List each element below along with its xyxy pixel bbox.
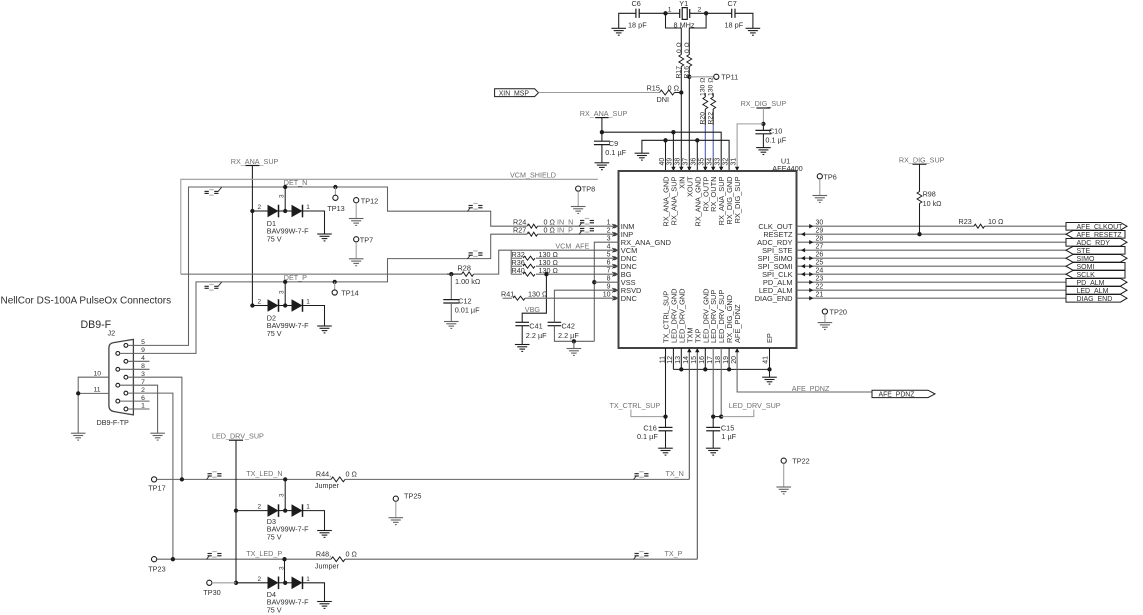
svg-text:TP7: TP7 [360,235,373,244]
svg-text:9: 9 [141,347,145,354]
svg-text:2: 2 [257,504,261,511]
svg-text:2: 2 [698,7,702,14]
wire pin 27 to flag STE [797,249,1067,251]
svg-text:0.1 µF: 0.1 µF [637,432,658,441]
svg-text:SIMO: SIMO [1077,256,1095,263]
svg-text:7: 7 [141,379,145,386]
svg-text:TX_N: TX_N [666,469,684,478]
svg-text:7: 7 [607,267,611,274]
svg-text:10: 10 [94,370,102,377]
svg-text:4: 4 [141,355,145,362]
shield symbol (DET_P mid) [468,251,483,259]
svg-text:NellCor DS-100A PulseOx Connec: NellCor DS-100A PulseOx Connectors [1,296,172,307]
wire pin 15 TXP to TX_P [696,348,698,559]
wire pin 8 stub [594,281,618,283]
svg-text:6: 6 [141,395,145,402]
svg-text:R98: R98 [923,190,936,199]
wire rail to pin 40 [665,140,667,171]
svg-text:3: 3 [279,194,286,198]
test point TP22 [781,458,786,463]
U1 left pin arrows [614,224,618,228]
resistor R17 0 ohm (XIN) [679,55,684,67]
junction D1 center (pin 3) [283,209,287,213]
wire pin 26 to flag SIMO [797,257,1067,259]
svg-text:RX_DIG_SUP: RX_DIG_SUP [733,176,742,223]
svg-text:24: 24 [816,267,824,274]
junction DET_P / D2 pin 3 [283,280,287,284]
svg-text:8: 8 [607,275,611,282]
svg-text:R28: R28 [458,264,471,273]
shield symbol (TX_LED_N) [207,472,222,480]
svg-text:1: 1 [141,403,145,410]
wire R22 to pin 34 (blue) [712,125,714,158]
svg-text:35: 35 [699,158,706,166]
junction gnd rail pin 19 [727,367,731,371]
wire node2 to C7 [706,12,732,14]
svg-text:1: 1 [306,204,310,211]
flag ADC_RDY [1066,239,1127,247]
connector J2 pin 8 [116,367,120,371]
svg-text:25: 25 [816,259,824,266]
wire R15 to XIN junction [675,92,682,94]
svg-text:8: 8 [141,363,145,370]
wire VCM_SHIELD [181,179,598,274]
svg-text:LED_DRV_SUP: LED_DRV_SUP [212,431,264,440]
ground (D4) [317,602,332,609]
resistor R40 130 ohm [511,273,522,275]
svg-text:AFE_PDNZ: AFE_PDNZ [733,304,742,343]
junction C42 bottom / ground [572,339,576,343]
svg-text:1: 1 [306,299,310,306]
svg-text:DNC: DNC [621,294,638,303]
connector J2 pin 1 [124,407,128,411]
svg-text:EP: EP [765,333,774,343]
junction R28 / C12 [449,272,453,276]
svg-text:TP8: TP8 [582,185,595,194]
shield symbol (IN_P) [579,227,594,235]
shield symbol (TX_N) [634,472,649,480]
resistor R20 130 ohm (RX_OUTP) [704,93,706,97]
svg-text:1 µF: 1 µF [721,432,736,441]
ground (EP rail) [769,369,771,377]
svg-text:TP22: TP22 [792,457,809,466]
svg-text:5: 5 [141,339,145,346]
capacitor C12 0.01uF [450,274,452,300]
ground (J2 shell) [71,433,86,440]
resistor R48 0 ohm jumper [331,557,345,562]
test point TP12 [354,198,359,203]
diode D4 (dual BAV99W-7-F) [236,582,268,584]
wire pin 20 AFE_PDNZ to flag [737,348,872,392]
wire J2 pin 5 to DET_N run [150,187,528,345]
wire J2 pin 3 down to TX_LED_N [150,377,182,479]
svg-text:41: 41 [762,356,769,364]
svg-text:TX_LED_P: TX_LED_P [246,549,282,558]
junction TX_LED_N / J2 pin 3 [180,477,184,481]
wire EP to gnd rail [769,348,771,369]
connector J2 pin 4 [124,359,128,363]
svg-text:4: 4 [607,243,611,250]
resistor R22 130 ohm (RX_OUTN) [712,93,714,97]
svg-text:75 V: 75 V [267,605,282,614]
svg-text:LED_DRV_SUP: LED_DRV_SUP [729,401,781,410]
svg-text:TP12: TP12 [361,196,378,205]
wire pin 29 to flag AFE_RESETZ [797,233,1067,235]
shield symbol (DET_N mid) [468,204,483,212]
wire RX_ANA_SUP rail to pin 33 [602,132,721,171]
svg-text:Jumper: Jumper [315,561,340,570]
svg-text:R20: R20 [700,112,707,125]
wire pin 22 to flag LED_ALM [797,289,1067,291]
wire D4 pin 3 [284,559,286,583]
ground (C10) [756,148,771,155]
flag SCLK [1066,271,1125,279]
wire D1 pin 1 to ground [303,211,325,234]
svg-text:RX_DIG_SUP: RX_DIG_SUP [741,99,787,108]
svg-text:SCLK: SCLK [1077,272,1096,279]
svg-text:TX_LED_N: TX_LED_N [246,469,282,478]
svg-text:AFE4400: AFE4400 [772,164,802,173]
svg-text:PD_ALM: PD_ALM [1077,280,1105,287]
flag AFE_PDNZ [872,390,935,397]
test point TP20 [822,309,827,314]
wire VCM net to pin 4 [474,250,619,274]
resistor R41 130 ohm [503,297,512,299]
svg-text:5: 5 [607,251,611,258]
wire XIN_MSP to R15 [539,92,660,94]
svg-text:TX_CTRL_SUP: TX_CTRL_SUP [610,401,661,410]
ground (J2 pin 7) [150,433,165,440]
svg-text:TP11: TP11 [721,73,738,82]
svg-text:2: 2 [257,204,261,211]
junction D2 center (pin 3) [283,303,287,307]
test point TP30 [207,580,212,585]
svg-text:75 V: 75 V [267,329,282,338]
junction TX_LED_N / D3 pin 3 [283,477,287,481]
ground rail above U1 [642,140,729,171]
wire VSS pin 8 net [594,242,618,341]
svg-text:VCM_SHIELD: VCM_SHIELD [510,171,556,180]
connector J2 pin 2 [124,391,128,395]
svg-text:TP14: TP14 [341,289,358,298]
wire VCM branch for R32/R36/R40 [510,250,512,274]
junction D2 pin 2 [250,303,254,307]
test point TP11 [714,74,719,79]
resistor R27 0 ohm (IN_P) [528,232,538,236]
svg-text:22: 22 [816,283,824,290]
wire pin 28 to flag ADC_RDY [797,241,1067,243]
wire R20 to pin 35 (blue) [704,125,706,158]
svg-text:75 V: 75 V [267,234,282,243]
svg-text:130 Ω: 130 Ω [539,266,559,275]
wire node1 down to XIN branch [666,13,682,54]
node 1 (crystal pin 1 junction) [663,11,667,15]
test point TP17 [152,477,157,482]
ground (C9) [595,163,610,170]
svg-text:1: 1 [306,504,310,511]
svg-text:130 Ω: 130 Ω [528,289,548,298]
ground (D2) [317,326,332,333]
svg-text:2.2 µF: 2.2 µF [558,331,579,340]
svg-text:6: 6 [607,259,611,266]
resistor R98 10k pull-up [919,164,921,191]
capacitor C7 [732,9,735,18]
svg-text:TP20: TP20 [830,308,847,317]
svg-text:10 Ω: 10 Ω [988,217,1004,226]
resistor R44 0 ohm jumper [331,477,345,482]
U1 top pin names (rotated) [662,176,743,227]
diode D3 (dual BAV99W-7-F) [236,510,268,512]
wire LED_DRV_SUP rail down to D3/D4 [235,440,237,583]
junction RX_DIG_SUP / C10 [761,122,765,126]
svg-text:130 Ω: 130 Ω [700,78,707,96]
svg-text:30: 30 [816,219,824,226]
ground (C41) [515,345,530,352]
svg-text:TP25: TP25 [404,491,421,500]
ground (TP6) [813,196,828,203]
U1 bottom pin names (rotated) [662,289,743,344]
junction D3 pin 2 [234,508,238,512]
wire rail to pin 39 [672,132,674,171]
svg-text:VBG: VBG [525,305,541,314]
svg-text:0.1 µF: 0.1 µF [765,136,786,145]
resistor R23 10 ohm [974,224,984,228]
junction pin 18 / LED_DRV_SUP [719,414,723,418]
junction gnd rail pin 13 [679,367,683,371]
diode D2 (dual BAV99W-7-F) [252,305,267,307]
wire D3 pin 3 [284,479,286,510]
svg-text:0 Ω: 0 Ω [676,42,683,53]
svg-text:36: 36 [691,158,698,166]
svg-text:R23: R23 [959,217,972,226]
svg-text:AFE_PDNZ: AFE_PDNZ [792,384,830,393]
resistor R24 0 ohm (IN_N) [528,224,538,228]
test point TP25 [393,496,398,501]
svg-text:10: 10 [603,291,611,298]
flag SIMO [1066,255,1127,263]
svg-text:29: 29 [816,227,824,234]
wire pin 24 to flag SCLK [797,273,1067,275]
junction XOUT / TP11 [687,75,691,79]
flag SOMI [1066,263,1125,271]
junction rail / pin 40 [663,138,667,142]
test point TP8 [576,186,581,191]
junction D1 pin 2 [250,209,254,213]
svg-text:C12: C12 [458,297,471,306]
capacitor C10 0.1uF [762,124,764,130]
wire pin 23 to flag PD_ALM [797,281,1067,283]
svg-text:C42: C42 [562,322,575,331]
wire node1 to crystal [666,12,680,14]
connector J2 pin 6 [116,399,120,403]
svg-text:TP17: TP17 [148,484,165,493]
svg-text:AFE_PDNZ: AFE_PDNZ [879,392,915,399]
resistor R15 0 ohm DNI [660,90,675,95]
flag PD_ALM [1066,279,1127,287]
ground (C6) [611,28,626,35]
svg-text:21: 21 [816,291,824,298]
connector J2 pin 3 [124,375,128,379]
svg-text:10 kΩ: 10 kΩ [923,199,943,208]
svg-text:2: 2 [257,576,261,583]
junction D3 center (pin 3) [283,508,287,512]
wire rail to pin 36 [696,140,698,171]
flag XIN_MSP [495,89,539,97]
svg-text:R15,: R15, [647,83,662,92]
ground (top rail) [635,153,650,160]
svg-text:33: 33 [715,158,722,166]
svg-text:TP30: TP30 [203,588,220,597]
svg-text:3: 3 [607,235,611,242]
svg-text:31: 31 [730,158,737,166]
wire D4 pin 1 to ground [303,583,325,602]
wire C42 top to pin 9 (RSVD) [554,290,618,322]
wire to TP11 [689,76,713,78]
svg-text:9: 9 [607,283,611,290]
connector J2 pin 9 [116,352,120,356]
wire TX_LED_N / TX_N row [157,478,331,480]
svg-text:3: 3 [279,290,286,294]
connector J2 DB9-F body [109,339,133,415]
op-amp U1 AFE4400 body [619,171,797,348]
svg-text:TP6: TP6 [823,172,836,181]
svg-text:37: 37 [683,158,690,166]
svg-text:0 Ω: 0 Ω [684,42,691,53]
wire C6 left lead to ground [619,13,636,28]
svg-text:RX_ANA_SUP: RX_ANA_SUP [231,157,279,166]
ground (C7) [746,28,761,35]
svg-text:3: 3 [279,493,286,497]
crystal Y1 [680,8,690,20]
shield symbol (TX_LED_P) [207,552,222,560]
flag AFE_CLKOUT [1066,223,1127,231]
capacitor C42 2.2uF [548,322,562,325]
wire crystal to node 2 [690,12,706,14]
connector J2 pin 5 [124,344,128,348]
flag DIAG_END [1066,295,1127,303]
svg-text:11: 11 [94,387,101,394]
junction D4 center (pin 3) [283,581,287,585]
junction TX_LED_P / J2 pin 2 [171,557,175,561]
ground (C15) [706,448,721,455]
ground (D1) [317,234,332,241]
wire pin 21 to flag DIAG_END [797,297,1067,299]
svg-text:ADC_RDY: ADC_RDY [1077,240,1111,247]
svg-text:1.00 kΩ: 1.00 kΩ [455,277,481,286]
wire TX_LED_P / TX_P row [157,558,331,560]
svg-text:VCM_AFE: VCM_AFE [555,241,589,250]
svg-text:1: 1 [306,576,310,583]
svg-text:R41,: R41, [501,289,516,298]
svg-text:STE: STE [1077,248,1091,255]
svg-text:130 Ω: 130 Ω [708,78,715,96]
capacitor C16 0.1uF [665,417,667,428]
junction XIN / R15 [679,90,683,94]
svg-text:DIAG_END: DIAG_END [1077,296,1113,303]
svg-text:40: 40 [659,158,666,166]
wire J2 pin 7 to ground [150,385,158,433]
U1 left pin numbers [603,219,611,298]
shield symbol (TX_P) [634,552,649,560]
wire VBG to C41 [522,274,546,322]
wire node2 down to XOUT branch [689,13,706,54]
junction RX_ANA_SUP rail / C9 [600,130,604,134]
capacitor C9 0.1uF [601,132,603,141]
svg-text:2: 2 [141,387,145,394]
flag STE [1066,247,1125,255]
svg-text:27: 27 [816,243,824,250]
capacitor C41 2.2uF [515,322,529,325]
svg-text:18 pF: 18 pF [628,21,647,30]
wire D2 pin 1 to ground [303,306,325,327]
ground (TP8) [571,207,586,214]
wire D1 pin 3 [284,187,286,211]
wire J2 pin 9 to DET_P run [150,234,528,353]
svg-text:Jumper: Jumper [315,481,340,490]
svg-text:23: 23 [816,275,824,282]
test point TP23 [152,557,157,562]
svg-text:R22: R22 [708,112,715,125]
wire XIN net vertical to pin 38 [680,67,682,172]
svg-text:C41: C41 [529,322,542,331]
svg-text:28: 28 [816,235,824,242]
svg-text:34: 34 [707,158,714,166]
svg-text:J2: J2 [108,329,116,338]
svg-text:XIN_MSP: XIN_MSP [499,90,530,97]
wire pin 14 TXM to TX_N [688,348,690,479]
ground (D3) [317,531,332,538]
svg-text:R48,: R48, [316,550,331,559]
U1 right pin names [755,222,793,303]
svg-text:DIAG_END: DIAG_END [755,294,793,303]
svg-text:0 Ω: 0 Ω [346,550,358,559]
svg-text:2: 2 [257,299,261,306]
ground (C16) [658,448,673,455]
resistor R16 0 ohm (XOUT) [687,55,692,67]
U1 right pin numbers [816,219,824,298]
ground (TP22) [776,487,791,494]
svg-text:IN_P: IN_P [557,226,573,235]
junction gnd rail EP [767,367,771,371]
svg-text:1: 1 [607,219,611,226]
junction gnd rail pin 16 [703,367,707,371]
flag AFE_RESETZ [1066,231,1125,239]
junction DET_N / D1 pin 3 [283,185,287,189]
svg-text:18 pF: 18 pF [725,21,744,30]
resistor R32 130 ohm [511,257,522,259]
wire pin 11 to C16 [665,348,667,417]
wire C7 right lead to ground [735,13,753,28]
shield symbol (IN_N) [579,219,594,227]
svg-text:0 Ω: 0 Ω [346,469,358,478]
svg-text:TX_P: TX_P [665,549,683,558]
svg-text:TP13: TP13 [327,204,344,213]
resistor R36 130 ohm [511,265,522,267]
capacitor C15 1uF [712,417,714,428]
U1 left pin names [621,222,671,303]
flag LED_ALM [1066,287,1127,295]
wire pins 17/18 to C15 [712,348,714,417]
ground rail below U1 [672,348,674,369]
svg-text:LED_ALM: LED_ALM [1077,288,1109,295]
svg-text:0.01 µF: 0.01 µF [455,306,480,315]
svg-text:TP23: TP23 [148,565,165,574]
svg-text:R44,: R44, [316,469,331,478]
diode D1 (dual BAV99W-7-F) [252,210,267,212]
ground (C42/VSS) [573,341,575,348]
junction DET_N / TP13 [333,185,337,189]
svg-text:C10: C10 [769,126,782,135]
